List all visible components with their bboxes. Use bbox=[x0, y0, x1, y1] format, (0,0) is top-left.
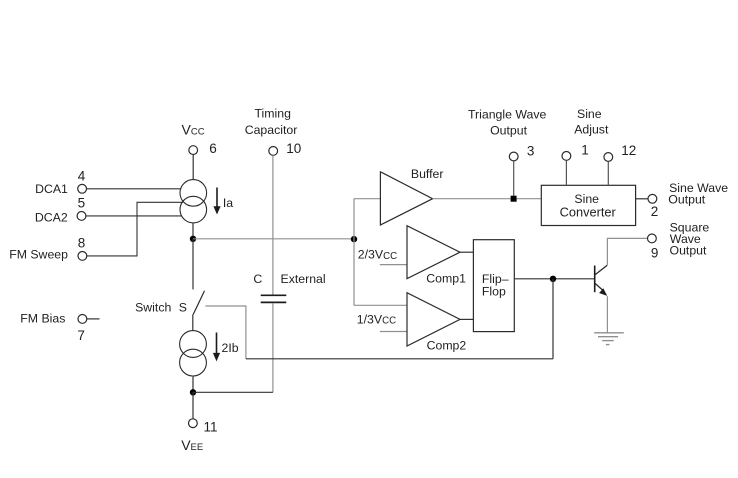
svg-text:6: 6 bbox=[209, 141, 217, 156]
current source Ia bbox=[180, 180, 207, 223]
svg-text:DCA1: DCA1 bbox=[35, 182, 68, 196]
op-amp buffer bbox=[380, 172, 432, 225]
svg-text:Output: Output bbox=[670, 243, 707, 257]
pin 9 terminal bbox=[648, 234, 657, 243]
wire 2/3Vcc stub bbox=[380, 264, 407, 266]
capacitor C plates bbox=[261, 295, 287, 302]
pin 2 terminal bbox=[648, 194, 657, 203]
svg-text:Adjust: Adjust bbox=[574, 123, 609, 137]
svg-text:S: S bbox=[179, 301, 187, 315]
svg-text:Flop: Flop bbox=[482, 284, 506, 298]
pin 12 terminal bbox=[604, 153, 613, 162]
comparator Comp1 bbox=[407, 226, 460, 279]
wire switch control bbox=[205, 306, 246, 359]
wire node A to switch bbox=[192, 239, 194, 290]
svg-text:Ia: Ia bbox=[223, 196, 233, 210]
svg-text:2: 2 bbox=[651, 204, 659, 219]
flip-flop U1 bbox=[473, 240, 514, 332]
svg-text:8: 8 bbox=[78, 236, 86, 251]
pin 5 terminal bbox=[77, 212, 86, 221]
wire timing capacitor upper bbox=[272, 155, 274, 294]
node C junction bbox=[190, 389, 196, 395]
pin 4 terminal bbox=[78, 184, 87, 193]
node E junction bbox=[550, 276, 556, 282]
node A junction bbox=[190, 236, 196, 242]
wire node C to pin 11 bbox=[192, 392, 194, 418]
svg-text:3: 3 bbox=[527, 143, 535, 158]
svg-text:Triangle Wave: Triangle Wave bbox=[468, 108, 547, 122]
sine converter block bbox=[541, 185, 635, 225]
svg-text:Comp1: Comp1 bbox=[426, 272, 466, 286]
wire feedback bottom bbox=[246, 358, 553, 360]
label Flip-Flop bbox=[482, 272, 509, 298]
wire DCA2 bbox=[86, 215, 181, 217]
svg-text:Capacitor: Capacitor bbox=[245, 123, 298, 137]
wire collector to pin 9 bbox=[607, 238, 647, 265]
wire pin 3 drop bbox=[513, 161, 515, 199]
wire main bus bbox=[193, 238, 354, 240]
svg-text:11: 11 bbox=[204, 419, 218, 434]
svg-text:C: C bbox=[253, 272, 262, 286]
pin 1 terminal bbox=[562, 152, 571, 161]
svg-text:1: 1 bbox=[581, 142, 589, 157]
wire buffer output bbox=[433, 198, 542, 200]
arrow Ia bbox=[213, 188, 220, 215]
label Sine Wave Output bbox=[668, 181, 728, 207]
wire pin 1 drop bbox=[565, 160, 567, 185]
svg-text:7: 7 bbox=[77, 328, 85, 343]
label Triangle Wave Output bbox=[468, 108, 547, 138]
wire to buffer input bbox=[354, 198, 380, 200]
wire timing capacitor lower bbox=[272, 303, 274, 392]
label Sine Adjust bbox=[574, 107, 609, 136]
pin 6 terminal bbox=[189, 146, 198, 155]
svg-text:Sine: Sine bbox=[577, 107, 602, 121]
svg-text:9: 9 bbox=[651, 245, 659, 260]
current source 2Ib bbox=[180, 331, 207, 376]
svg-text:Timing: Timing bbox=[255, 107, 292, 121]
label Timing Capacitor bbox=[245, 107, 298, 137]
svg-text:Switch: Switch bbox=[135, 301, 171, 315]
wire switch to current source 2Ib bbox=[192, 315, 194, 332]
wire FM Bias stub bbox=[87, 318, 100, 320]
svg-text:DCA2: DCA2 bbox=[35, 210, 68, 224]
wire Vcc lead bbox=[192, 155, 194, 180]
svg-text:4: 4 bbox=[78, 168, 86, 183]
svg-text:12: 12 bbox=[621, 143, 636, 158]
pin 10 terminal bbox=[269, 147, 278, 156]
svg-text:FM Bias: FM Bias bbox=[20, 311, 65, 325]
node D junction bbox=[511, 196, 517, 202]
pin 7 terminal bbox=[78, 315, 87, 324]
node B junction bbox=[351, 236, 357, 242]
label Sine Converter bbox=[560, 192, 617, 219]
wire flip-flop output bbox=[514, 278, 594, 280]
wire to comp2 input bbox=[354, 304, 407, 306]
wire emitter drop bbox=[606, 296, 608, 333]
arrow 2Ib bbox=[213, 333, 220, 362]
svg-text:Converter: Converter bbox=[560, 205, 617, 220]
svg-text:Comp2: Comp2 bbox=[427, 338, 467, 352]
ground bbox=[594, 333, 624, 345]
wire FM Sweep bbox=[87, 202, 183, 256]
svg-text:2Ib: 2Ib bbox=[222, 341, 239, 355]
svg-text:Output: Output bbox=[668, 193, 705, 207]
svg-text:5: 5 bbox=[78, 196, 86, 211]
pin 8 terminal bbox=[78, 252, 87, 261]
switch S blade bbox=[193, 291, 204, 315]
svg-text:External: External bbox=[281, 272, 326, 286]
wire bus riser bbox=[353, 199, 355, 306]
wire 1/3Vcc stub bbox=[380, 331, 407, 333]
svg-text:10: 10 bbox=[286, 141, 301, 156]
pin 3 terminal bbox=[509, 152, 518, 161]
wire current source to node A bbox=[192, 223, 194, 239]
transistor Q1 bbox=[595, 265, 608, 296]
wire 2Ib to node C bbox=[192, 376, 194, 392]
svg-text:FM Sweep: FM Sweep bbox=[9, 247, 68, 261]
wire comp2 output bbox=[460, 318, 473, 320]
label Square Wave Output bbox=[670, 221, 710, 258]
wire node E drop bbox=[552, 279, 554, 359]
wire node C to capacitor bbox=[193, 391, 273, 393]
label Switch S bbox=[135, 301, 187, 315]
wire pin 2 lead bbox=[636, 198, 648, 200]
comparator Comp2 bbox=[407, 293, 460, 346]
wire pin 12 drop bbox=[607, 162, 609, 186]
wire comp1 output bbox=[460, 251, 473, 253]
wire DCA1 bbox=[87, 188, 182, 190]
svg-text:Buffer: Buffer bbox=[411, 167, 444, 181]
pin 11 terminal bbox=[189, 419, 198, 428]
svg-text:Output: Output bbox=[490, 123, 527, 137]
